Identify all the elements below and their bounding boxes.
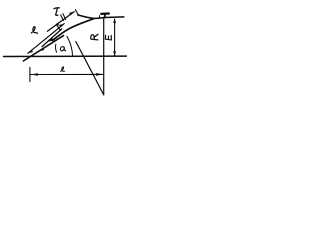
tick l upper	[57, 26, 60, 30]
label script l top-left	[31, 27, 37, 34]
tick T upper	[75, 10, 78, 16]
arrow E down	[113, 51, 116, 56]
arrow E up	[113, 18, 116, 23]
arrow T lower	[54, 23, 59, 27]
arrow l lower	[28, 50, 33, 54]
wire top tangent line	[78, 15, 124, 19]
angle arc inner fragment	[56, 44, 57, 52]
label T italic left	[54, 8, 59, 16]
dim E vertical	[114, 19, 116, 56]
label R rotated	[91, 34, 98, 40]
wire T-dimension line	[47, 12, 74, 32]
arrow aux	[49, 38, 54, 42]
wire l-dimension line	[28, 24, 64, 54]
node PI tick	[98, 16, 100, 18]
wire baseline	[4, 55, 127, 57]
tick T mid b	[63, 14, 66, 20]
wire aux dim stroke	[42, 29, 62, 47]
label alpha	[60, 47, 65, 51]
label script l bottom	[61, 67, 65, 71]
arrow l upper	[59, 24, 64, 28]
arrow L left	[30, 73, 38, 76]
tick T mid a	[61, 15, 64, 21]
arrow L right	[96, 73, 103, 76]
wire tangent line	[23, 36, 63, 61]
arrow T upper	[69, 12, 74, 16]
tick L left	[29, 67, 31, 81]
arrow on tangent	[39, 48, 44, 52]
label E rotated	[105, 35, 111, 40]
wire main arc	[53, 19, 94, 41]
wire radius diagonal to center	[76, 42, 104, 95]
dim L bottom line	[30, 73, 103, 75]
angle arc alpha	[67, 36, 73, 56]
wire radius R vertical	[103, 17, 105, 94]
label T serif bold right	[101, 12, 109, 15]
